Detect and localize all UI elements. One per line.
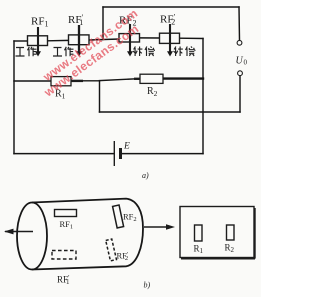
gauge RF1 on shaft xyxy=(55,210,77,217)
cylinder body xyxy=(17,199,143,270)
terminal block box xyxy=(180,207,255,259)
svg-text:RF′2: RF′2 xyxy=(160,13,175,27)
wire bottom left xyxy=(14,153,114,155)
label gongzuo 2 (working) xyxy=(53,47,74,57)
wire R1 to junction xyxy=(83,80,100,82)
wire bottom mid junction up xyxy=(99,81,101,112)
left tension arrow xyxy=(4,229,33,235)
strain gauge RF2 xyxy=(119,24,140,57)
wire right vertical xyxy=(202,39,204,154)
terminal lower xyxy=(238,71,243,76)
wire gauge row xyxy=(14,40,28,42)
label buchang 2 (compensation) xyxy=(174,47,195,57)
gauge RF2' on shaft (tilted dashed) xyxy=(106,239,117,261)
battery E xyxy=(114,141,120,166)
wire lower output terminal down xyxy=(239,76,241,112)
wire top rail xyxy=(103,6,239,8)
label gongzuo 1 (working) xyxy=(16,47,37,57)
wire to upper output terminal xyxy=(238,7,241,40)
svg-text:b): b) xyxy=(144,281,151,290)
svg-text:E: E xyxy=(123,142,130,152)
svg-text:RF′2: RF′2 xyxy=(117,251,129,263)
svg-text:a): a) xyxy=(142,171,149,180)
resistor R1 xyxy=(51,77,83,86)
terminal upper xyxy=(237,40,242,45)
strain gauge RF1 xyxy=(28,27,48,57)
R1 chip in box xyxy=(195,225,203,241)
strain gauge RF2' xyxy=(160,24,180,57)
wire R2 right thick xyxy=(163,77,203,79)
label buchang 1 (compensation) xyxy=(133,47,154,57)
wire left vertical xyxy=(13,41,15,154)
svg-text:RF′1: RF′1 xyxy=(57,274,70,286)
strain gauge RF1' xyxy=(69,25,90,57)
gauge RF1' on shaft (dashed, hidden side) xyxy=(52,251,76,260)
R2 chip in box xyxy=(227,225,235,240)
svg-text:0: 0 xyxy=(244,59,248,67)
gauge RF2 on shaft (tilted) xyxy=(113,205,124,228)
wire top mid junction up xyxy=(102,7,104,40)
svg-text:RF′1: RF′1 xyxy=(68,13,83,27)
svg-text:U: U xyxy=(236,56,244,67)
wire bottom right xyxy=(122,153,204,155)
resistor R2 xyxy=(134,74,163,83)
wire R row left xyxy=(14,80,51,82)
right tension arrow xyxy=(144,224,175,230)
wire output bottom horizontal xyxy=(100,111,241,113)
